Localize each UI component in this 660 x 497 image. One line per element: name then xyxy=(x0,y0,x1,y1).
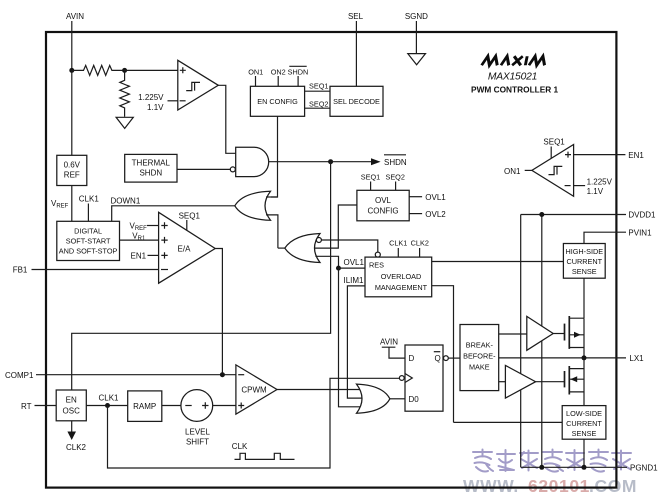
driver A (high-side) xyxy=(527,316,553,350)
svg-text:PGND1: PGND1 xyxy=(630,464,658,473)
SEL DECODE box xyxy=(330,86,383,116)
plus sign level shift xyxy=(202,402,208,408)
wire SEQ1 between boxes xyxy=(305,90,330,92)
wire EN CONFIG output down to OR1 input xyxy=(271,116,278,197)
wire SEQ1 stub U3 xyxy=(550,147,552,159)
wire G2 bottom input stub to OR3 output xyxy=(266,215,278,248)
svg-text:CLK2: CLK2 xyxy=(411,238,429,247)
svg-text:D: D xyxy=(409,354,415,363)
svg-text:SEQ1: SEQ1 xyxy=(543,137,565,146)
HIGH-SIDE CURRENT SENSE box xyxy=(563,244,605,279)
wire AVIN tee to D input xyxy=(382,347,405,358)
bubble U2 clock xyxy=(399,376,404,381)
plus signs E/A xyxy=(161,222,167,258)
wire sense box down to PGND xyxy=(583,439,585,467)
svg-text:SHDN: SHDN xyxy=(139,169,162,178)
svg-text:AVIN: AVIN xyxy=(380,337,398,346)
AND gate G1 xyxy=(236,147,269,176)
wire SEL down to SEL DECODE xyxy=(355,21,357,86)
svg-text:D0: D0 xyxy=(409,395,420,404)
pin DVDD1 (right) xyxy=(521,214,626,216)
svg-text:AVIN: AVIN xyxy=(66,12,84,21)
minus sign level shift xyxy=(185,405,191,407)
arrowhead SHDN xyxy=(371,158,381,165)
node B: divider junction xyxy=(122,68,127,73)
hysteresis symbol U3 xyxy=(549,166,563,174)
DIGITAL SOFT-START box xyxy=(57,221,120,260)
arrow Q2 xyxy=(570,376,577,382)
bubble G1 lower input xyxy=(230,167,235,172)
wire overload right output down to low-side rail xyxy=(432,286,454,423)
svg-text:ON1: ON1 xyxy=(504,167,521,176)
svg-text:BREAK-: BREAK- xyxy=(466,340,494,349)
EN CONFIG box xyxy=(250,86,304,116)
wire G3 bottom input to OVL1 node xyxy=(315,256,338,268)
wire Qbar to break-before-make xyxy=(448,357,460,359)
svg-text:0.6V: 0.6V xyxy=(64,161,81,170)
svg-text:OVL: OVL xyxy=(375,196,392,205)
watermark url xyxy=(463,476,637,496)
wire E/A output down to COMP1 node xyxy=(215,249,222,375)
wire OVL1 node down to OR4 input xyxy=(339,268,363,407)
svg-text:OVERLOAD: OVERLOAD xyxy=(381,272,422,281)
svg-text:PWM CONTROLLER 1: PWM CONTROLLER 1 xyxy=(471,84,558,94)
node LX1 junction xyxy=(582,355,587,360)
svg-text:THERMAL: THERMAL xyxy=(132,159,171,168)
wire CLK1 stub xyxy=(397,248,399,257)
wire SHDN arrow line xyxy=(331,161,372,163)
svg-text:DOWN1: DOWN1 xyxy=(111,196,141,205)
svg-text:COMP1: COMP1 xyxy=(5,371,34,380)
svg-text:EN: EN xyxy=(66,396,77,405)
hysteresis symbol U1 xyxy=(186,82,200,90)
svg-text:MANAGEMENT: MANAGEMENT xyxy=(375,283,428,292)
OR gate G4 (PWM/fault OR) xyxy=(357,384,390,413)
wire high-side rail from DVDD1 corner down to PGND corner xyxy=(520,215,522,468)
clock waveform xyxy=(235,453,295,459)
wire low-side rail into sense box xyxy=(454,421,563,423)
wire overload to high-side sense xyxy=(432,261,564,263)
wire LX1 line xyxy=(499,357,626,359)
svg-text:SEQ2: SEQ2 xyxy=(385,172,404,181)
wire RAMP to level shift xyxy=(162,405,181,407)
plus sign U3 xyxy=(565,152,571,158)
logo MAXIM xyxy=(482,56,547,65)
node PGND junction 1 xyxy=(539,465,544,470)
pin PVIN1 (right) xyxy=(584,232,626,243)
wire BBM to upper driver xyxy=(499,333,527,335)
svg-text:OVL2: OVL2 xyxy=(425,210,446,219)
wire G3 middle input from OVL CONFIG xyxy=(315,205,357,248)
svg-text:SEQ1: SEQ1 xyxy=(309,81,328,90)
wire thermal shdn to AND bubble xyxy=(177,168,230,170)
svg-text:SEL: SEL xyxy=(348,12,364,21)
svg-text:CONFIG: CONFIG xyxy=(367,206,398,215)
error amp E/A xyxy=(159,212,216,283)
wire EN1 stub xyxy=(148,254,159,256)
bubble G3 top input xyxy=(316,238,321,243)
wire CLK2 stub xyxy=(419,248,421,257)
node OVL1 junction xyxy=(336,266,341,271)
pin SGND (top) xyxy=(405,12,428,54)
wire CLK1 down and across to flip-flop clock xyxy=(108,378,400,468)
wire G2 top input stub xyxy=(266,196,278,198)
svg-text:1.225V: 1.225V xyxy=(138,93,164,102)
svg-text:SOFT-START: SOFT-START xyxy=(66,236,111,245)
wire ILIM1 into box and down to OR4 xyxy=(347,286,365,398)
THERMAL SHDN box xyxy=(125,154,177,182)
minus sign E/A xyxy=(161,269,168,271)
node PGND junction 2 xyxy=(582,465,587,470)
pin SEL (top) xyxy=(348,12,364,87)
svg-text:REF: REF xyxy=(64,171,80,180)
svg-text:MAX15021: MAX15021 xyxy=(488,72,537,83)
minus sign CPWM xyxy=(238,374,244,376)
comparator CPWM xyxy=(236,365,277,414)
driver B (low-side) xyxy=(505,365,535,398)
wire ON1 stub xyxy=(255,76,257,86)
wire CLK1 stub into soft-start xyxy=(87,204,89,222)
wire SEQ1 stub E/A xyxy=(186,220,188,230)
wire SEQ2 stub xyxy=(395,182,397,191)
D flip-flop U2 xyxy=(405,345,443,411)
wire node B to comparator xyxy=(125,69,178,71)
EN OSC box xyxy=(56,390,86,421)
BREAK-BEFORE-MAKE box xyxy=(460,325,499,391)
svg-text:LX1: LX1 xyxy=(629,354,644,363)
OVERLOAD MANAGEMENT box xyxy=(365,257,432,297)
wire OVL1 output xyxy=(409,196,422,198)
wire DVDD1 rail down (behind drivers) xyxy=(541,215,543,468)
wire SEQ1 stub xyxy=(370,182,372,191)
arrow Q1 xyxy=(574,332,581,338)
svg-text:E/A: E/A xyxy=(178,244,192,253)
wire CLK2 down from EN OSC xyxy=(71,421,73,433)
wire G1 output to SHDN node xyxy=(269,161,331,163)
node A: AVIN junction xyxy=(69,68,74,73)
svg-text:CLK1: CLK1 xyxy=(389,238,407,247)
svg-text:RT: RT xyxy=(21,402,32,411)
wire driver A to gate xyxy=(553,333,564,335)
wire U3 minus stub xyxy=(574,185,586,187)
svg-text:LOW-SIDE: LOW-SIDE xyxy=(566,409,602,418)
wire level shift to CPWM plus xyxy=(213,405,236,407)
wire 1.225V stub xyxy=(168,100,178,102)
arrowhead CLK2 xyxy=(67,432,76,441)
transistor Q2 (low-side) xyxy=(565,358,585,406)
wire SHDN down-left to EN OSC enable xyxy=(72,162,331,390)
transistor Q1 (high-side) xyxy=(565,316,585,358)
wire G4 output to D0 xyxy=(390,398,405,400)
svg-text:DVDD1: DVDD1 xyxy=(628,211,656,220)
svg-text:LEVEL: LEVEL xyxy=(185,427,210,436)
svg-text:PVIN1: PVIN1 xyxy=(628,228,652,237)
node COMP1 junction xyxy=(220,372,225,377)
svg-text:Q: Q xyxy=(435,354,441,363)
wire driver B to gate xyxy=(536,381,565,383)
wire DOWN1 from OR1 output to soft-start box xyxy=(112,206,235,222)
resistor R1 (horizontal) xyxy=(72,65,125,75)
svg-text:BEFORE-: BEFORE- xyxy=(463,351,496,360)
wire FB1 to E/A minus xyxy=(32,269,159,271)
wire VREF down to soft-start box xyxy=(71,186,73,222)
svg-text:WWW.: WWW. xyxy=(463,476,519,496)
svg-text:OVL1: OVL1 xyxy=(344,258,365,267)
wire ON1 to U3 output xyxy=(525,169,532,171)
wire RT to EN OSC xyxy=(35,405,57,407)
wire COMP1 to CPWM minus xyxy=(36,374,236,376)
bubble RES input xyxy=(375,252,380,257)
wire U1 output to AND gate xyxy=(218,85,235,153)
LOW-SIDE CURRENT SENSE box xyxy=(562,406,606,440)
ground symbol SGND xyxy=(408,54,426,65)
node SHDN junction xyxy=(328,159,333,164)
wire CPWM output to OR4 xyxy=(277,389,362,391)
svg-text:EN1: EN1 xyxy=(628,151,644,160)
wire AVIN rail down to 0.6V REF xyxy=(71,70,73,155)
svg-text:FB1: FB1 xyxy=(13,266,28,275)
svg-text:EN1: EN1 xyxy=(131,252,147,261)
svg-text:SEQ1: SEQ1 xyxy=(361,172,380,181)
wire PGND1 line xyxy=(521,466,627,468)
svg-text:SHIFT: SHIFT xyxy=(186,437,209,446)
svg-text:HIGH-SIDE: HIGH-SIDE xyxy=(565,247,603,256)
svg-text:ON2: ON2 xyxy=(271,68,286,77)
svg-text:SEL DECODE: SEL DECODE xyxy=(333,97,380,106)
svg-text:SGND: SGND xyxy=(405,12,428,21)
svg-text:CLK: CLK xyxy=(232,442,248,451)
level shift circle xyxy=(181,390,213,422)
wire AVIN down xyxy=(71,21,73,70)
svg-text:SENSE: SENSE xyxy=(572,429,597,438)
pin AVIN (top) xyxy=(66,12,84,71)
svg-text:ON1: ON1 xyxy=(248,68,263,77)
svg-text:620101: 620101 xyxy=(528,476,590,496)
plus sign CPWM xyxy=(238,403,244,409)
svg-text:CURRENT: CURRENT xyxy=(566,257,602,266)
svg-text:CPWM: CPWM xyxy=(241,385,267,394)
comparator U3 (ON1) xyxy=(532,145,574,197)
wire SEQ2 between boxes xyxy=(305,107,330,109)
bubble U2 Qbar xyxy=(444,356,449,361)
svg-text:RAMP: RAMP xyxy=(133,402,156,411)
svg-text:EN CONFIG: EN CONFIG xyxy=(257,97,298,106)
plus sign U1 xyxy=(180,67,186,73)
outer box border xyxy=(46,32,616,488)
svg-text:1.1V: 1.1V xyxy=(147,103,164,112)
svg-text:SEQ1: SEQ1 xyxy=(179,212,201,221)
svg-text:OSC: OSC xyxy=(63,407,81,416)
svg-text:CLK2: CLK2 xyxy=(66,443,87,452)
wire OVL1 node to OVERLOAD box xyxy=(339,267,366,269)
node CLK1 junction xyxy=(105,403,110,408)
svg-text:DIGITAL: DIGITAL xyxy=(74,226,102,235)
pin EN1 (right) xyxy=(574,154,626,156)
wire SGND down xyxy=(415,21,417,54)
resistor R2 (vertical) xyxy=(120,70,130,116)
ground symbol R2 xyxy=(116,117,133,128)
minus sign U1 xyxy=(180,100,186,102)
minus sign U3 xyxy=(565,185,571,187)
wire EN OSC output to CLK1 node xyxy=(86,405,127,407)
svg-text:CURRENT: CURRENT xyxy=(566,419,602,428)
RAMP box xyxy=(128,391,162,422)
svg-text:MAKE: MAKE xyxy=(469,362,490,371)
svg-text:ILIM1: ILIM1 xyxy=(344,276,365,285)
wire ON2 stub xyxy=(277,76,279,86)
wire sense to mosfet drain xyxy=(583,278,585,318)
0.6V REF box xyxy=(57,155,87,185)
wire VR1 soft-start to E/A xyxy=(120,239,159,241)
comparator U1 (AVIN UVLO) xyxy=(178,60,219,110)
clock triangle U2 xyxy=(405,374,412,383)
svg-text:AND SOFT-STOP: AND SOFT-STOP xyxy=(59,246,118,255)
svg-text:SHDN: SHDN xyxy=(288,68,309,77)
wire G3 output to G2 xyxy=(278,247,285,249)
svg-text:1.1V: 1.1V xyxy=(587,187,604,196)
svg-text:RES: RES xyxy=(369,261,384,270)
wire VREF stub xyxy=(147,225,159,227)
svg-text:OVL1: OVL1 xyxy=(425,193,446,202)
svg-text:.COM: .COM xyxy=(589,476,637,496)
svg-text:CLK1: CLK1 xyxy=(79,194,100,203)
svg-text:SENSE: SENSE xyxy=(572,267,597,276)
OR gate G2 (mirrored, output=DOWN1) xyxy=(235,191,271,220)
watermark chinese characters xyxy=(473,450,631,472)
svg-text:SHDN: SHDN xyxy=(384,158,407,167)
wire OVL2 output xyxy=(409,213,422,215)
wire G3 bubble input to RES bubble xyxy=(321,240,377,252)
svg-text:1.225V: 1.225V xyxy=(587,177,613,186)
svg-text:SEQ2: SEQ2 xyxy=(309,100,328,109)
svg-text:CLK1: CLK1 xyxy=(98,394,119,403)
OVL CONFIG box xyxy=(357,190,409,221)
wire BBM to lower driver xyxy=(499,381,506,383)
OR gate G3 (mirrored, 3-input) xyxy=(285,234,320,263)
wire SHDN stub xyxy=(297,76,299,86)
